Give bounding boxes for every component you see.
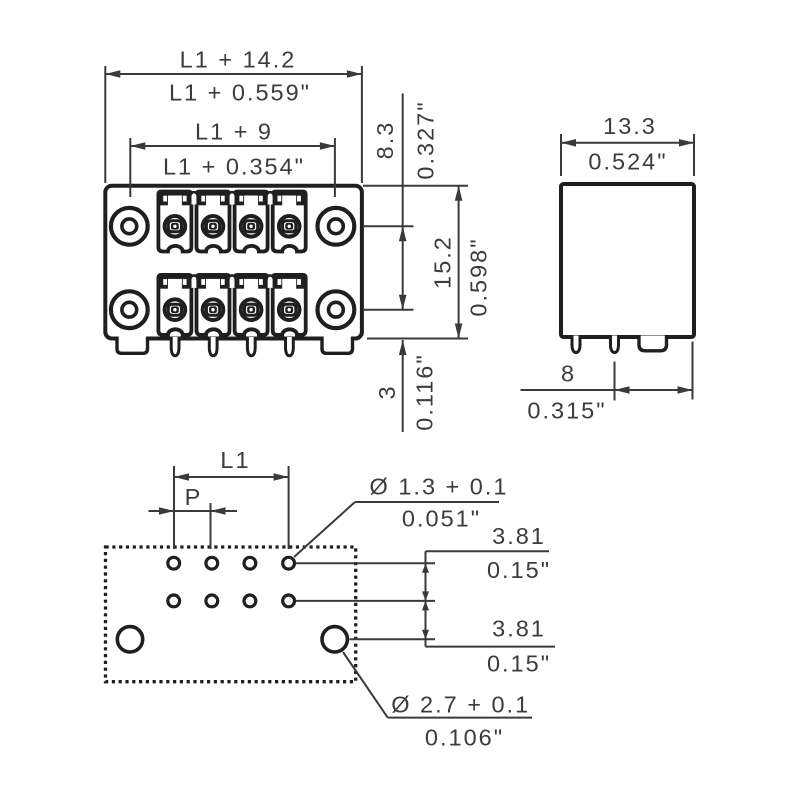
solder pin front pos4 bbox=[286, 337, 294, 356]
side view connector body outline bbox=[561, 184, 694, 337]
polarization key row1 gap3 bbox=[266, 192, 273, 205]
dimension 3.81 / 0.15in row pitch lower bbox=[350, 601, 556, 677]
dimension L1 hole group width bbox=[174, 447, 289, 549]
mounting foot front right bbox=[322, 337, 353, 354]
dimension 13.3 / 0.524in depth bbox=[561, 113, 694, 176]
svg-text:P: P bbox=[185, 484, 203, 510]
polarization key row2 gap1 bbox=[190, 275, 197, 288]
svg-text:0.116": 0.116" bbox=[412, 353, 438, 430]
terminal contact row1 pos2 bbox=[197, 192, 230, 252]
solder pin front pos1 bbox=[171, 337, 179, 356]
terminal contact row2 pos4 bbox=[273, 275, 306, 335]
terminal contact row1 pos1 bbox=[158, 192, 191, 252]
polarization key row1 gap2 bbox=[228, 192, 235, 205]
polarization key row2 gap3 bbox=[266, 275, 273, 288]
svg-text:L1 + 9: L1 + 9 bbox=[195, 119, 273, 145]
svg-text:13.3: 13.3 bbox=[603, 113, 657, 139]
front view connector body outline bbox=[105, 186, 362, 339]
svg-text:0.315": 0.315" bbox=[527, 398, 606, 424]
leader diameter 2.7 +0.1 bbox=[343, 652, 532, 751]
svg-text:0.524": 0.524" bbox=[588, 149, 667, 175]
drill hole 2.7mm right bbox=[322, 627, 347, 652]
svg-text:3: 3 bbox=[374, 384, 400, 399]
svg-text:3.81: 3.81 bbox=[492, 616, 546, 642]
polarization key row2 gap2 bbox=[228, 275, 235, 288]
solder pin side 1 bbox=[572, 336, 580, 353]
dimension P pitch bbox=[149, 484, 238, 549]
dimension L1 + 14.2 overall width bbox=[105, 47, 362, 183]
drill hole 1.3mm row2 col4 bbox=[283, 595, 295, 607]
svg-text:L1 + 0.354": L1 + 0.354" bbox=[163, 154, 305, 180]
mounting hole bottom-right bbox=[318, 291, 355, 328]
drill hole 1.3mm row2 col2 bbox=[206, 595, 218, 607]
svg-text:8: 8 bbox=[561, 361, 576, 387]
dimension 8.3 / 0.327in row spacing bbox=[363, 94, 468, 310]
leader diameter 1.3 +0.1 bbox=[294, 474, 508, 557]
svg-text:0.327": 0.327" bbox=[413, 100, 439, 179]
svg-text:8.3: 8.3 bbox=[372, 121, 398, 160]
drill hole 1.3mm row1 col2 bbox=[206, 557, 218, 569]
solder pin front pos2 bbox=[209, 337, 217, 356]
terminal contact row1 pos4 bbox=[273, 192, 306, 252]
dimension 15.2 / 0.598in body height bbox=[367, 186, 492, 339]
dimension 3.81 / 0.15in row pitch upper bbox=[296, 523, 551, 647]
svg-text:15.2: 15.2 bbox=[430, 235, 456, 289]
dimension 3 / 0.116in pin length bbox=[374, 340, 438, 432]
svg-text:Ø 1.3 + 0.1: Ø 1.3 + 0.1 bbox=[370, 474, 509, 500]
solder pin side 2 bbox=[611, 336, 619, 353]
terminal contact row1 pos3 bbox=[235, 192, 268, 252]
terminal contact row2 pos3 bbox=[235, 275, 268, 335]
solder pin front pos3 bbox=[247, 337, 255, 356]
dimension 8 / 0.315in pin position bbox=[521, 342, 693, 424]
terminal contact row2 pos1 bbox=[158, 275, 191, 335]
side view mounting foot bbox=[639, 336, 667, 351]
svg-text:0.051": 0.051" bbox=[402, 505, 481, 531]
drill hole 1.3mm row1 col3 bbox=[244, 557, 256, 569]
mounting hole top-left bbox=[111, 208, 148, 245]
drill hole 1.3mm row1 col1 bbox=[168, 557, 180, 569]
svg-text:0.15": 0.15" bbox=[487, 557, 551, 583]
mounting hole top-right bbox=[318, 208, 355, 245]
mounting hole bottom-left bbox=[111, 291, 148, 328]
drill hole 1.3mm row2 col1 bbox=[168, 595, 180, 607]
dimension L1 + 9 mounting hole distance bbox=[130, 119, 335, 197]
svg-text:0.106": 0.106" bbox=[425, 725, 504, 751]
drill hole 1.3mm row2 col3 bbox=[244, 595, 256, 607]
PCB outline dashed bbox=[106, 547, 356, 682]
drill hole 2.7mm left bbox=[117, 627, 142, 652]
svg-text:0.598": 0.598" bbox=[466, 237, 492, 316]
terminal contact row2 pos2 bbox=[197, 275, 230, 335]
svg-text:L1 + 14.2: L1 + 14.2 bbox=[180, 47, 297, 73]
svg-text:3.81: 3.81 bbox=[492, 523, 546, 549]
svg-text:L1: L1 bbox=[220, 447, 250, 473]
mounting foot front left bbox=[117, 337, 148, 354]
svg-text:0.15": 0.15" bbox=[487, 651, 551, 677]
drill hole 1.3mm row1 col4 bbox=[283, 557, 295, 569]
polarization key row1 gap1 bbox=[190, 192, 197, 205]
svg-text:Ø 2.7 + 0.1: Ø 2.7 + 0.1 bbox=[391, 692, 530, 718]
svg-text:L1 + 0.559": L1 + 0.559" bbox=[169, 80, 311, 106]
